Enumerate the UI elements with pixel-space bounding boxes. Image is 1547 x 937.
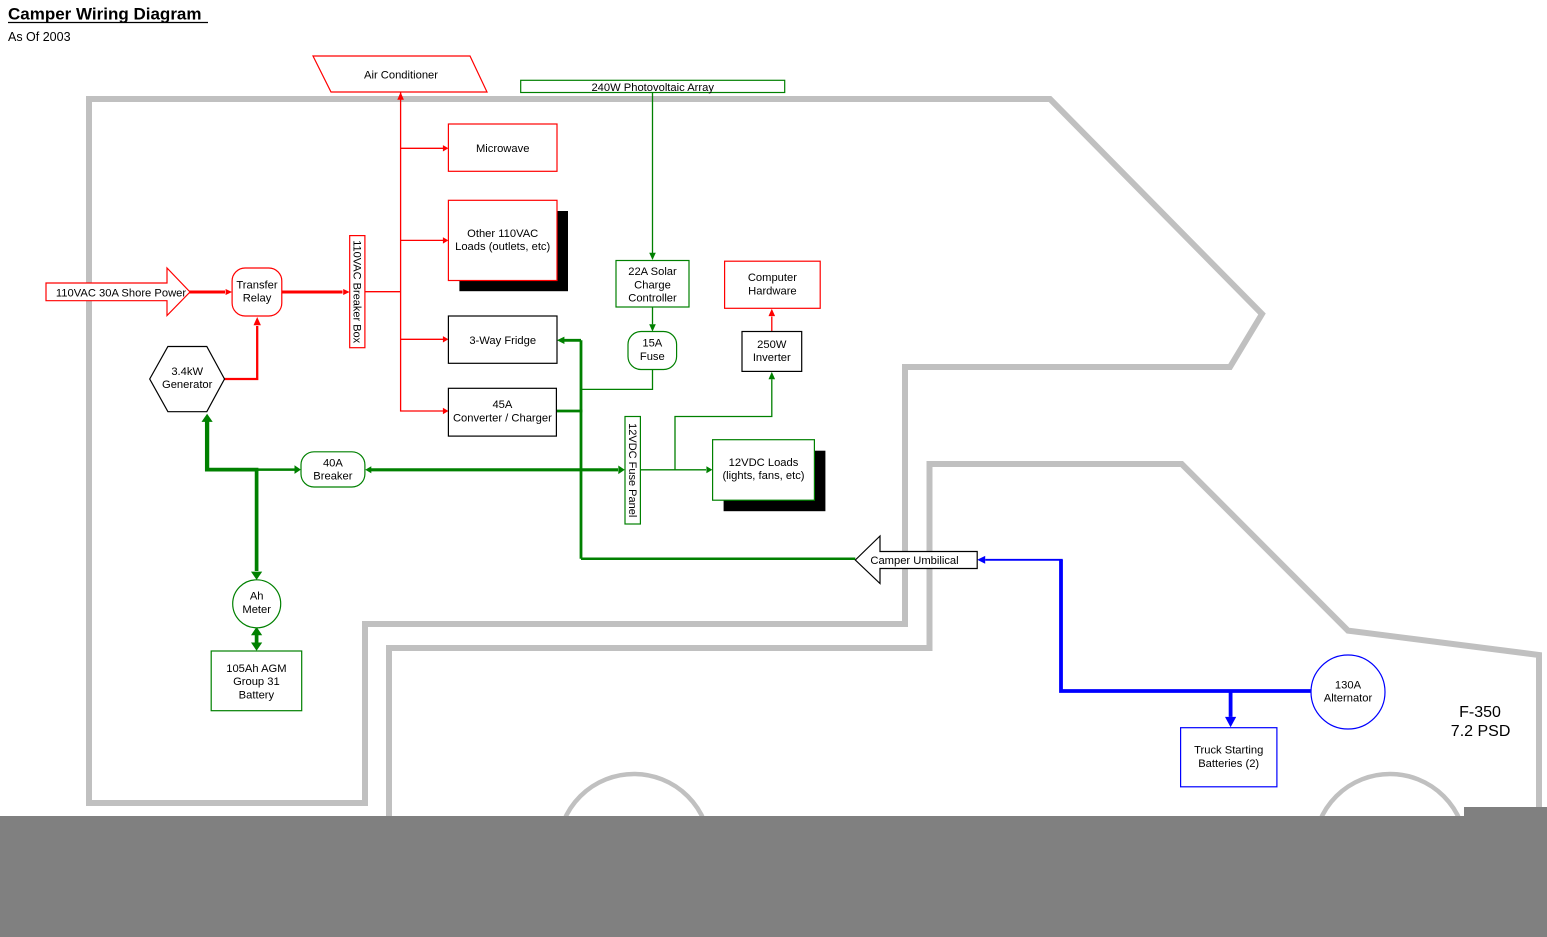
svg-text:Group 31: Group 31 <box>233 676 280 688</box>
svg-text:Converter / Charger: Converter / Charger <box>453 412 552 424</box>
wire thick red shore power to transfer relay <box>190 289 233 295</box>
45A converter / charger <box>448 388 556 436</box>
wire red breaker box to bus <box>365 291 401 293</box>
svg-text:Camper Wiring Diagram: Camper Wiring Diagram <box>8 5 202 24</box>
svg-text:40A: 40A <box>323 457 343 469</box>
wire green PV array to charge controller <box>649 93 656 261</box>
wire green 15A fuse to DC bus <box>581 370 653 390</box>
svg-text:110VAC 30A Shore Power: 110VAC 30A Shore Power <box>56 287 186 299</box>
wire green bus to fridge <box>557 337 581 344</box>
wire blue to truck batteries <box>1225 691 1236 727</box>
wire green converter to bus <box>557 410 583 413</box>
shore power callout <box>46 268 190 316</box>
wire green controller to 15A fuse <box>649 307 656 332</box>
svg-text:Battery: Battery <box>239 689 275 701</box>
wire thick blue truck run to alternator <box>1061 560 1312 691</box>
240W photovoltaic array <box>521 80 785 94</box>
12VDC loads shadow <box>724 451 826 512</box>
wire red generator to transfer relay <box>225 317 261 379</box>
130A alternator <box>1311 655 1385 729</box>
microwave <box>448 124 557 171</box>
svg-text:Truck Starting: Truck Starting <box>1194 745 1263 757</box>
svg-text:Batteries (2): Batteries (2) <box>1198 758 1259 770</box>
air conditioner <box>313 56 487 92</box>
title <box>8 5 208 45</box>
wire green Ah meter to battery double arrow <box>251 627 262 651</box>
F-350 label <box>1451 704 1511 740</box>
svg-text:45A: 45A <box>492 399 512 411</box>
wire blue umbilical to truck <box>977 556 1062 564</box>
wire green 40A breaker to 12VDC fuse panel <box>365 466 625 475</box>
svg-text:3-Way Fridge: 3-Way Fridge <box>469 335 536 347</box>
truck cab and bed outline <box>389 464 1539 819</box>
svg-text:(lights, fans, etc): (lights, fans, etc) <box>722 470 804 482</box>
wire green generator drop <box>202 414 213 472</box>
svg-text:Ah: Ah <box>250 591 264 603</box>
svg-text:12VDC Fuse Panel: 12VDC Fuse Panel <box>626 423 638 517</box>
svg-text:Air Conditioner: Air Conditioner <box>364 70 438 82</box>
svg-text:As Of 2003: As Of 2003 <box>8 30 71 44</box>
wire red branch to microwave <box>401 145 449 151</box>
wire red branch to other loads <box>401 237 449 243</box>
svg-text:Transfer: Transfer <box>236 279 278 291</box>
svg-text:110VAC Breaker Box: 110VAC Breaker Box <box>350 240 362 343</box>
svg-text:7.2 PSD: 7.2 PSD <box>1451 723 1511 740</box>
truck starting batteries <box>1181 728 1277 787</box>
wire thick red transfer relay to breaker box <box>282 289 350 295</box>
camper umbilical <box>855 536 977 584</box>
svg-text:Other 110VAC: Other 110VAC <box>467 228 538 240</box>
ground bar <box>0 807 1547 937</box>
svg-text:Hardware: Hardware <box>748 285 797 297</box>
wire red branch arrow to converter <box>443 408 449 414</box>
svg-text:Breaker: Breaker <box>313 471 352 483</box>
transfer relay <box>232 268 282 316</box>
rear wheel <box>558 774 710 926</box>
wire green bus to camper umbilical <box>581 558 855 561</box>
wire red 110VAC bus vertical <box>397 92 443 411</box>
wire green branch to inverter <box>675 372 775 470</box>
svg-text:Controller: Controller <box>628 293 677 305</box>
svg-text:Microwave: Microwave <box>476 143 529 155</box>
105Ah AGM battery <box>211 651 302 711</box>
computer hardware <box>725 261 821 308</box>
wire green junction to Ah meter <box>205 470 262 580</box>
110VAC breaker box <box>350 236 365 348</box>
svg-text:22A Solar: 22A Solar <box>628 266 677 278</box>
svg-text:12VDC Loads: 12VDC Loads <box>729 457 799 469</box>
12VDC fuse panel <box>625 417 640 525</box>
15A fuse <box>628 332 677 370</box>
svg-text:Meter: Meter <box>242 604 271 616</box>
svg-text:Loads (outlets, etc): Loads (outlets, etc) <box>455 241 550 253</box>
svg-text:Camper Umbilical: Camper Umbilical <box>870 555 958 567</box>
svg-text:130A: 130A <box>1335 679 1362 691</box>
camper body outline <box>89 99 1262 803</box>
wire red inverter to computer hardware <box>769 309 776 371</box>
svg-text:Generator: Generator <box>162 379 213 391</box>
wire green fuse panel to 12VDC loads <box>640 466 712 473</box>
svg-text:Relay: Relay <box>243 293 272 305</box>
12VDC loads <box>713 440 815 501</box>
svg-text:15A: 15A <box>642 338 662 350</box>
wire green DC bus vertical <box>580 340 583 559</box>
svg-text:Computer: Computer <box>748 272 797 284</box>
svg-text:105Ah AGM: 105Ah AGM <box>226 663 286 675</box>
3.4kW generator <box>150 347 225 412</box>
wire red branch to fridge <box>401 336 449 342</box>
other 110VAC loads shadow <box>459 211 568 291</box>
3-way fridge <box>448 316 557 363</box>
wire green junction to 40A breaker <box>257 465 301 474</box>
svg-text:Alternator: Alternator <box>1324 693 1373 705</box>
other 110VAC loads <box>448 200 557 280</box>
svg-text:Inverter: Inverter <box>753 352 791 364</box>
250W inverter <box>742 332 802 372</box>
22A solar charge controller <box>616 261 689 308</box>
svg-text:F-350: F-350 <box>1459 704 1501 721</box>
svg-text:Fuse: Fuse <box>640 351 665 363</box>
svg-text:3.4kW: 3.4kW <box>171 366 203 378</box>
svg-text:Charge: Charge <box>634 279 671 291</box>
Ah meter <box>233 580 281 628</box>
front wheel <box>1314 774 1466 926</box>
40A breaker <box>301 452 365 487</box>
svg-text:250W: 250W <box>757 339 787 351</box>
svg-text:240W Photovoltaic Array: 240W Photovoltaic Array <box>591 82 714 94</box>
